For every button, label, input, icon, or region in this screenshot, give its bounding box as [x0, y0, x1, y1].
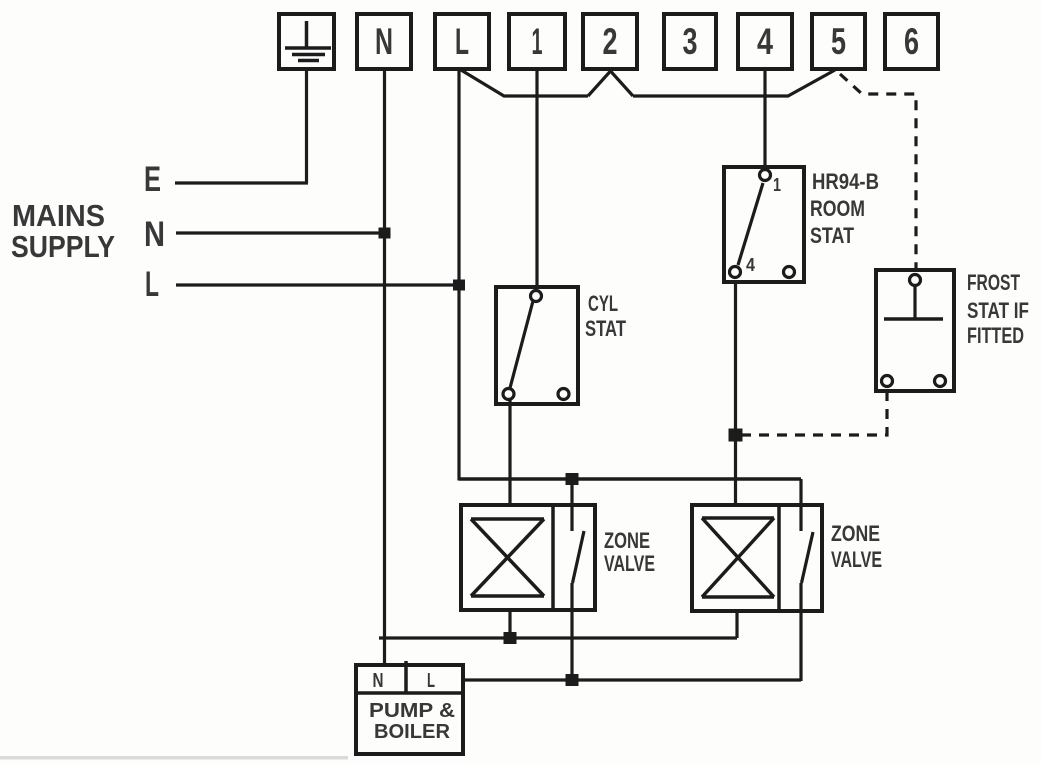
- svg-text:6: 6: [904, 21, 919, 62]
- svg-text:E: E: [144, 160, 161, 199]
- pump and boiler box: [356, 665, 463, 754]
- svg-text:L: L: [427, 670, 435, 692]
- cyl stat top terminal: [531, 291, 542, 302]
- cyl stat bottom-left terminal: [503, 389, 514, 400]
- svg-text:STAT IF: STAT IF: [967, 298, 1029, 323]
- wire L supply: [176, 283, 459, 286]
- frost stat contact bar: [884, 317, 943, 321]
- zone valve 2 motor: [702, 518, 774, 597]
- terminal box 6: [885, 14, 938, 69]
- room stat switch arm: [738, 183, 763, 265]
- svg-text:ROOM: ROOM: [810, 196, 865, 221]
- svg-text:FROST: FROST: [967, 270, 1020, 295]
- wire link bus to terminal 5: [633, 70, 835, 96]
- zone valve 2 end-switch lower lead: [799, 583, 802, 681]
- terminal box 3: [664, 14, 716, 69]
- zone valve 1 body: [461, 505, 595, 610]
- junction pump live bus: [566, 674, 579, 686]
- label ZONE VALVE 2: [831, 521, 882, 572]
- wire cyl stat output: [508, 399, 511, 505]
- wire valve feed bus: [459, 477, 801, 481]
- svg-text:N: N: [373, 670, 384, 692]
- scan artifact line: [0, 756, 348, 760]
- wire dashed frost stat to node: [742, 391, 887, 435]
- room stat bottom-left terminal: [730, 267, 741, 278]
- terminal box 4: [738, 14, 792, 69]
- svg-text:ZONE: ZONE: [604, 528, 650, 553]
- label CYL STAT: [585, 291, 626, 341]
- wire zone valve 1 motor neutral: [508, 610, 511, 638]
- svg-text:ZONE: ZONE: [831, 521, 880, 546]
- cyl stat switch arm: [510, 301, 533, 388]
- wire neutral bus: [379, 636, 737, 639]
- label FROST STAT IF FITTED: [967, 270, 1029, 348]
- svg-text:L: L: [145, 265, 159, 304]
- terminal box 2: [583, 14, 637, 69]
- frost stat box: [876, 270, 954, 391]
- junction neutral bus: [504, 632, 517, 644]
- junction N supply: [379, 228, 391, 239]
- wire E supply: [175, 181, 308, 184]
- svg-text:PUMP &: PUMP &: [369, 700, 455, 722]
- zone valve 1 divider: [551, 505, 555, 610]
- svg-text:2: 2: [603, 21, 618, 62]
- room stat top terminal: [760, 170, 771, 181]
- zone valve 1 end-switch arm: [573, 531, 585, 583]
- svg-text:N: N: [375, 21, 393, 62]
- frost stat contact stem: [913, 287, 916, 319]
- svg-text:HR94-B: HR94-B: [812, 169, 879, 194]
- svg-text:5: 5: [831, 21, 846, 62]
- frost stat top terminal: [910, 275, 921, 286]
- wire N supply: [176, 231, 385, 234]
- svg-text:4: 4: [757, 21, 773, 62]
- terminal box L: [435, 14, 489, 69]
- svg-text:STAT: STAT: [810, 223, 854, 248]
- wire dashed terminal 5 to frost stat: [840, 74, 916, 272]
- cyl stat bottom-right terminal: [558, 389, 569, 400]
- svg-text:N: N: [144, 215, 165, 254]
- room stat bottom-right terminal: [784, 267, 795, 278]
- label ZONE VALVE 1: [604, 528, 655, 576]
- frost stat bottom-right terminal: [935, 376, 946, 387]
- wire link bus peak terminal 2: [588, 71, 633, 96]
- label HR94-B ROOM STAT: [810, 169, 879, 248]
- terminal box N: [357, 14, 411, 69]
- wire terminal 4 to room stat: [763, 69, 766, 170]
- zone valve 1 end-switch lower lead: [570, 583, 573, 680]
- terminal box earth: [279, 14, 334, 69]
- zone valve 2 end-switch arm: [802, 532, 814, 583]
- svg-text:1: 1: [773, 175, 781, 195]
- svg-text:SUPPLY: SUPPLY: [11, 229, 115, 264]
- label PUMP & BOILER: [369, 700, 455, 743]
- terminal box 5: [812, 14, 865, 69]
- svg-text:FITTED: FITTED: [967, 323, 1024, 348]
- junction L supply: [453, 280, 465, 291]
- svg-text:L: L: [455, 21, 469, 62]
- earth symbol: [285, 21, 331, 61]
- wire terminal 1 to cyl stat: [535, 69, 538, 290]
- zone valve 2 divider: [777, 505, 781, 611]
- zone valve 1 end-switch upper lead: [570, 479, 573, 531]
- pump terminal divider vertical: [404, 661, 408, 693]
- svg-text:4: 4: [746, 255, 755, 275]
- wire zone valve 2 motor neutral: [735, 611, 738, 638]
- wire room stat output: [734, 282, 737, 505]
- svg-text:STAT: STAT: [585, 316, 626, 341]
- wire N drop: [383, 69, 386, 665]
- junction room stat / frost stat node: [729, 429, 743, 442]
- junction valve bus left switch: [566, 473, 579, 485]
- pump terminal row divider: [356, 691, 463, 695]
- terminal box 1: [509, 14, 565, 69]
- svg-text:1: 1: [532, 21, 543, 62]
- zone valve 2 end-switch upper lead: [799, 479, 802, 531]
- svg-text:MAINS: MAINS: [12, 198, 105, 233]
- zone valve 1 motor: [471, 519, 544, 596]
- wire L to link bus: [461, 70, 588, 96]
- zone valve 2 body: [692, 505, 822, 611]
- room stat box U1: [724, 167, 804, 282]
- wire pump live bus: [463, 678, 801, 681]
- svg-text:CYL: CYL: [588, 291, 618, 316]
- wire earth drop: [305, 69, 308, 183]
- cyl stat box: [496, 287, 578, 404]
- svg-text:BOILER: BOILER: [374, 721, 451, 743]
- svg-text:VALVE: VALVE: [831, 547, 882, 572]
- label MAINS SUPPLY: [11, 198, 115, 264]
- frost stat bottom-left terminal: [882, 376, 893, 387]
- svg-text:3: 3: [683, 21, 698, 62]
- wire L drop: [457, 69, 460, 481]
- svg-text:VALVE: VALVE: [604, 551, 655, 576]
